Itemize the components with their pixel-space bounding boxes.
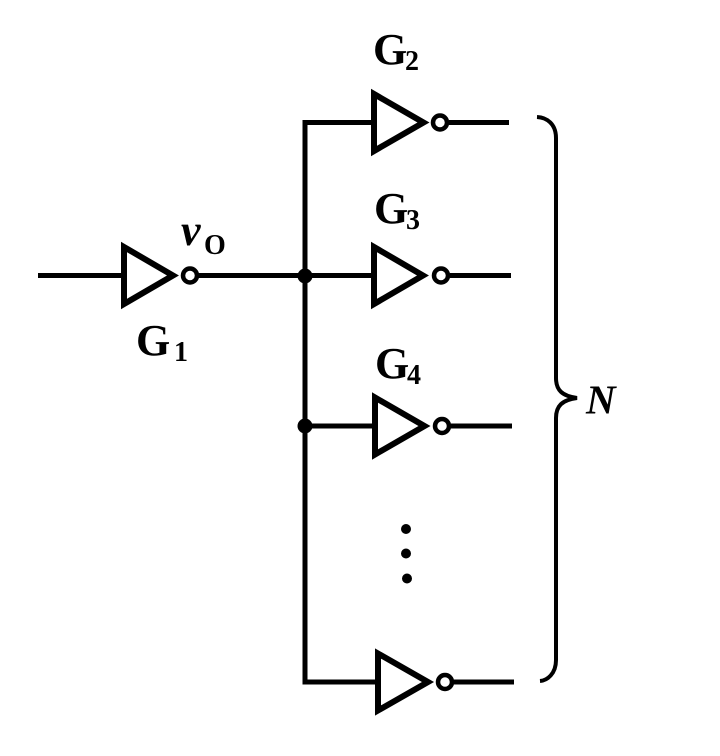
inverter G1 triangle <box>124 247 173 304</box>
wire: G4 output <box>451 424 512 429</box>
svg-text:3: 3 <box>406 205 420 236</box>
svg-text:N: N <box>585 377 617 423</box>
wire: vertical bus with top corner to G2 and bottom corner to GN <box>305 123 380 683</box>
svg-text:G: G <box>374 184 408 233</box>
ellipsis dot 3 <box>402 574 412 584</box>
ellipsis dot 2 <box>401 549 411 559</box>
inverter G4 bubble <box>435 419 449 433</box>
inverter G1 bubble <box>183 269 197 283</box>
svg-text:2: 2 <box>405 46 419 77</box>
svg-text:G: G <box>375 339 409 388</box>
node junction dot at vO bus <box>298 269 313 284</box>
wire: G1 output to G3 input (node vO) <box>197 273 376 278</box>
svg-text:v: v <box>181 206 201 255</box>
svg-text:G: G <box>373 25 407 74</box>
wire: G3 output <box>450 273 511 278</box>
brace for N gates <box>537 117 577 681</box>
ellipsis dot 1 <box>401 524 411 534</box>
node junction dot at G4 tap <box>298 419 313 434</box>
svg-text:1: 1 <box>174 337 188 368</box>
wire: bus to G4 input <box>303 424 377 429</box>
wire: GN output <box>454 680 514 685</box>
svg-text:G: G <box>136 316 170 365</box>
wire: input to G1 <box>38 273 126 278</box>
wire: G2 output <box>449 120 509 125</box>
svg-text:4: 4 <box>407 360 421 391</box>
inverter GN triangle <box>378 654 428 711</box>
inverter G3 bubble <box>434 269 448 283</box>
inverter G4 triangle <box>375 398 425 455</box>
inverter G2 triangle <box>374 94 424 151</box>
inverter G3 triangle <box>374 247 423 304</box>
svg-text:O: O <box>204 230 226 261</box>
inverter G2 bubble <box>433 116 447 130</box>
inverter GN bubble <box>438 675 452 689</box>
